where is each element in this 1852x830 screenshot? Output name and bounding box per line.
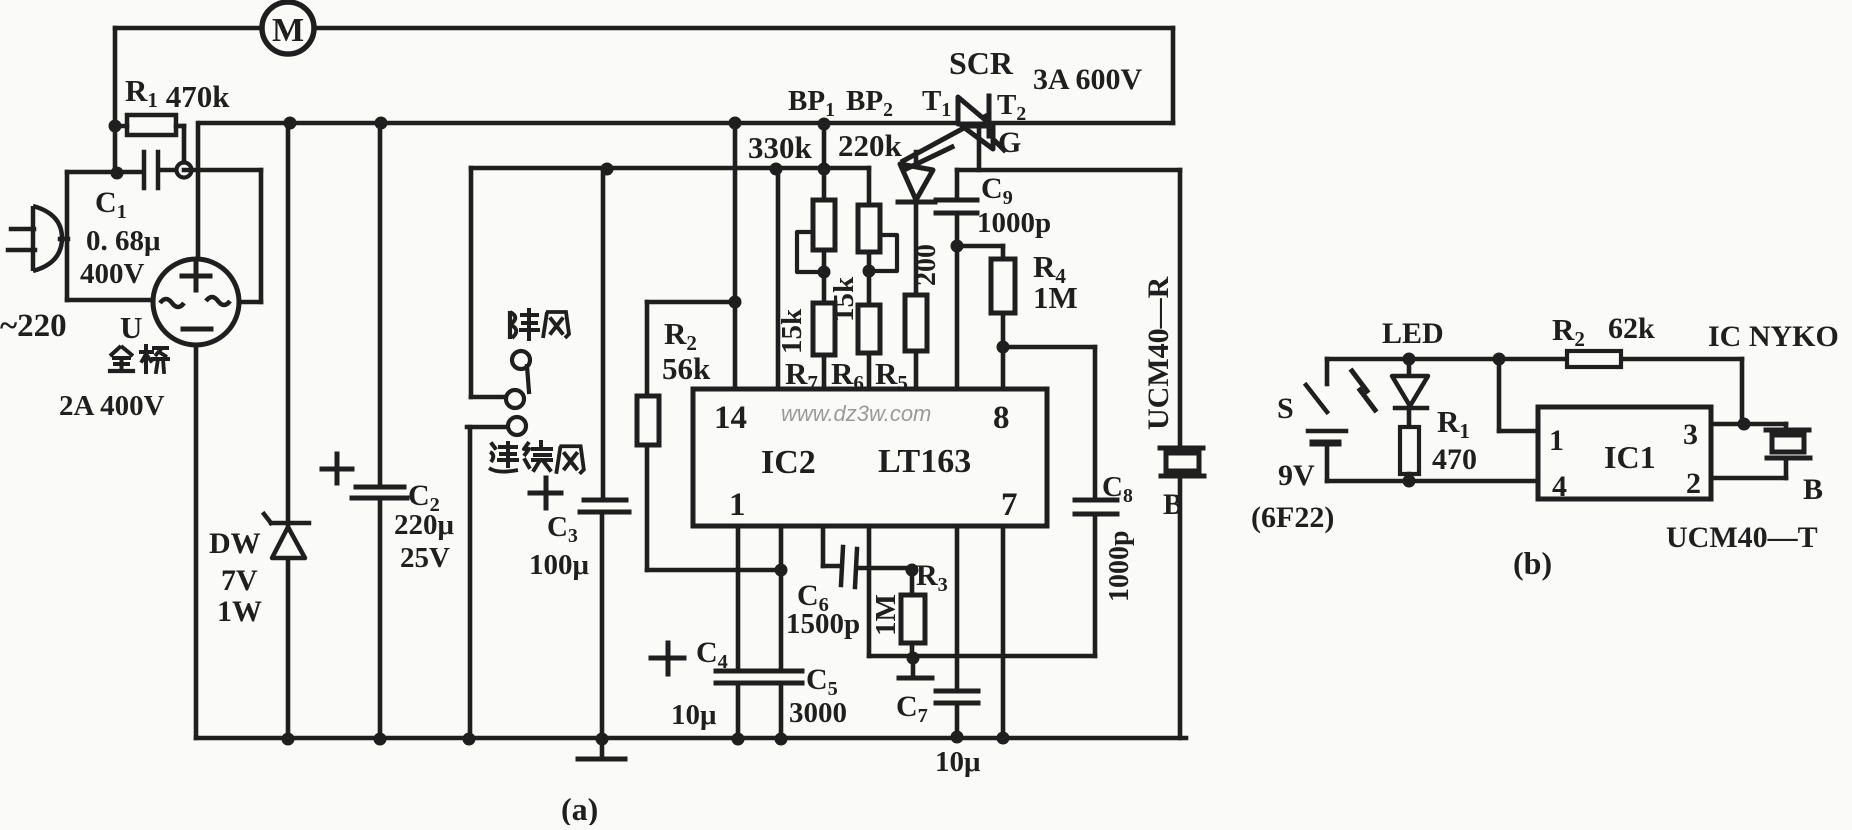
- svg-text:M: M: [272, 12, 304, 49]
- svg-text:B: B: [1803, 473, 1823, 506]
- svg-text:R1 470k: R1 470k: [125, 73, 230, 114]
- svg-text:470: 470: [1432, 443, 1477, 476]
- svg-text:1: 1: [1549, 424, 1564, 457]
- svg-text:10μ: 10μ: [671, 699, 717, 731]
- svg-text:IC NYKO: IC NYKO: [1708, 320, 1839, 353]
- svg-text:1W: 1W: [217, 595, 262, 628]
- svg-text:1M: 1M: [870, 594, 902, 636]
- svg-text:7: 7: [1001, 487, 1018, 523]
- svg-text:UCM40—R: UCM40—R: [1142, 276, 1175, 430]
- svg-text:400V: 400V: [80, 258, 145, 290]
- svg-text:2: 2: [1686, 467, 1701, 500]
- svg-text:4: 4: [1552, 470, 1567, 503]
- svg-text:(a): (a): [561, 791, 598, 825]
- svg-text:10μ: 10μ: [935, 746, 981, 778]
- svg-text:220μ: 220μ: [394, 509, 455, 541]
- svg-text:(6F22): (6F22): [1251, 501, 1334, 534]
- svg-text:DW: DW: [209, 527, 261, 560]
- svg-text:25V: 25V: [400, 542, 450, 574]
- svg-text:S: S: [1277, 392, 1294, 425]
- svg-text:3: 3: [1683, 418, 1698, 451]
- svg-text:8: 8: [993, 400, 1010, 436]
- svg-text:1000p: 1000p: [1104, 530, 1135, 602]
- svg-text:1000p: 1000p: [977, 207, 1051, 239]
- svg-text:3A 600V: 3A 600V: [1033, 63, 1143, 96]
- svg-text:0. 68μ: 0. 68μ: [86, 225, 161, 257]
- svg-text:1M: 1M: [1033, 280, 1078, 315]
- svg-text:3000: 3000: [789, 697, 847, 729]
- svg-text:330k: 330k: [748, 130, 813, 165]
- svg-text:SCR: SCR: [949, 45, 1014, 81]
- svg-text:1500p: 1500p: [786, 608, 860, 640]
- svg-text:IC2: IC2: [761, 444, 816, 481]
- svg-text:IC1: IC1: [1604, 439, 1656, 475]
- svg-text:200: 200: [911, 244, 942, 286]
- svg-text:100μ: 100μ: [529, 549, 590, 581]
- svg-text:15k: 15k: [776, 308, 808, 354]
- svg-text:B: B: [1163, 488, 1183, 521]
- svg-text:14: 14: [714, 400, 747, 436]
- svg-text:UCM40—T: UCM40—T: [1666, 521, 1818, 554]
- svg-text:~220: ~220: [0, 308, 67, 344]
- svg-text:LT163: LT163: [878, 443, 971, 480]
- svg-text:G: G: [998, 126, 1021, 159]
- svg-text:15k: 15k: [828, 276, 860, 322]
- svg-text:62k: 62k: [1608, 312, 1655, 345]
- svg-text:7V: 7V: [221, 564, 258, 597]
- svg-text:2A 400V: 2A 400V: [59, 390, 165, 422]
- svg-text:1: 1: [729, 487, 746, 523]
- svg-text:(b): (b): [1513, 545, 1552, 581]
- svg-text:220k: 220k: [838, 128, 903, 163]
- svg-text:9V: 9V: [1278, 459, 1315, 492]
- svg-text:LED: LED: [1382, 317, 1444, 350]
- svg-text:56k: 56k: [662, 351, 711, 386]
- svg-text:U: U: [120, 310, 142, 345]
- svg-text:www.dz3w.com: www.dz3w.com: [781, 401, 931, 426]
